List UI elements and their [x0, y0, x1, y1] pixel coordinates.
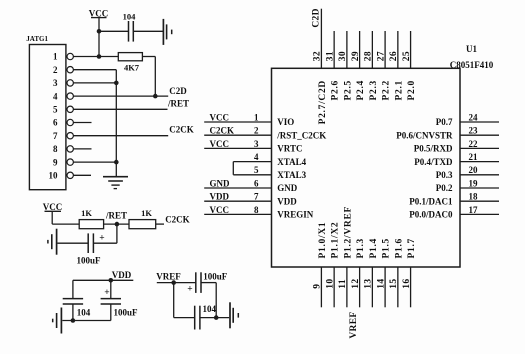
svg-text:1: 1	[53, 52, 58, 62]
svg-text:P0.2: P0.2	[436, 183, 453, 193]
svg-text:8: 8	[53, 144, 58, 154]
svg-text:6: 6	[53, 118, 58, 128]
svg-text:17: 17	[469, 205, 479, 215]
svg-text:2: 2	[53, 65, 58, 75]
svg-text:19: 19	[469, 178, 479, 188]
svg-text:P2.6: P2.6	[331, 80, 341, 100]
svg-text:104: 104	[77, 308, 91, 318]
svg-text:P2.7/C2D: P2.7/C2D	[318, 80, 328, 124]
svg-text:23: 23	[469, 126, 479, 136]
svg-text:13: 13	[364, 279, 374, 289]
svg-text:P1.7: P1.7	[407, 238, 417, 258]
svg-text:9: 9	[53, 157, 58, 167]
svg-text:C2CK: C2CK	[169, 125, 194, 135]
svg-text:P0.5/RXD: P0.5/RXD	[414, 144, 453, 154]
svg-text:VDD: VDD	[210, 192, 230, 202]
svg-text:5: 5	[53, 105, 58, 115]
svg-text:P0.4/TXD: P0.4/TXD	[414, 157, 453, 167]
svg-text:+: +	[187, 285, 192, 295]
svg-text:1K: 1K	[81, 208, 92, 218]
svg-text:VREGIN: VREGIN	[277, 210, 314, 220]
svg-text:7: 7	[53, 131, 58, 141]
svg-text:VCC: VCC	[210, 112, 230, 122]
svg-text:XTAL4: XTAL4	[277, 157, 306, 167]
svg-text:P0.0/DAC0: P0.0/DAC0	[409, 210, 453, 220]
svg-text:P0.3: P0.3	[436, 170, 453, 180]
svg-text:P1.3: P1.3	[356, 238, 366, 258]
svg-text:10: 10	[325, 279, 335, 289]
svg-text:6: 6	[254, 178, 259, 188]
svg-text:P1.1/X2: P1.1/X2	[331, 222, 341, 259]
svg-text:9: 9	[313, 284, 323, 289]
svg-text:32: 32	[313, 51, 323, 61]
svg-text:22: 22	[469, 139, 479, 149]
svg-text:20: 20	[469, 165, 479, 175]
svg-text:VCC: VCC	[89, 8, 109, 18]
svg-text:29: 29	[351, 51, 361, 61]
svg-text:8: 8	[254, 205, 259, 215]
svg-text:P1.5: P1.5	[382, 238, 392, 258]
svg-text:C2CK: C2CK	[165, 215, 190, 225]
svg-text:7: 7	[254, 192, 259, 202]
svg-text:5: 5	[254, 165, 259, 175]
svg-text:3: 3	[254, 139, 259, 149]
svg-text:VRTC: VRTC	[277, 144, 302, 154]
svg-text:28: 28	[364, 51, 374, 61]
svg-text:+: +	[99, 233, 104, 243]
svg-text:C2D: C2D	[169, 86, 187, 96]
svg-text:4: 4	[53, 91, 58, 101]
svg-text:25: 25	[402, 51, 412, 61]
svg-text:104: 104	[123, 11, 137, 21]
svg-text:1K: 1K	[141, 208, 152, 218]
svg-text:C8051F410: C8051F410	[450, 60, 494, 70]
svg-text:12: 12	[351, 279, 361, 289]
svg-text:XTAL3: XTAL3	[277, 170, 306, 180]
svg-text:VCC: VCC	[210, 139, 230, 149]
svg-text:JATG1: JATG1	[26, 35, 48, 43]
svg-text:P1.6: P1.6	[394, 238, 404, 258]
svg-text:VREF: VREF	[349, 312, 359, 339]
svg-text:+: +	[104, 288, 109, 298]
svg-text:21: 21	[469, 152, 479, 162]
svg-text:30: 30	[338, 51, 348, 61]
svg-text:P1.0/X1: P1.0/X1	[318, 222, 328, 259]
svg-text:16: 16	[402, 279, 412, 289]
svg-text:P0.1/DAC1: P0.1/DAC1	[409, 196, 453, 206]
svg-text:104: 104	[203, 304, 217, 314]
svg-text:4K7: 4K7	[124, 62, 140, 72]
svg-text:P2.5: P2.5	[343, 80, 353, 100]
svg-text:P2.1: P2.1	[394, 80, 404, 100]
svg-text:P2.0: P2.0	[407, 80, 417, 100]
svg-text:P2.2: P2.2	[382, 80, 392, 100]
svg-text:26: 26	[389, 51, 399, 61]
svg-text:VIO: VIO	[277, 117, 294, 127]
svg-text:/RET: /RET	[167, 98, 189, 108]
svg-text:VDD: VDD	[112, 270, 132, 280]
svg-text:1: 1	[254, 112, 259, 122]
svg-text:U1: U1	[466, 44, 477, 54]
svg-text:P0.7: P0.7	[436, 117, 453, 127]
svg-text:VDD: VDD	[277, 196, 297, 206]
svg-text:GND: GND	[277, 183, 298, 193]
svg-text:3: 3	[53, 78, 58, 88]
svg-text:2: 2	[254, 126, 259, 136]
svg-text:/RST_C2CK: /RST_C2CK	[276, 130, 326, 140]
svg-text:P2.3: P2.3	[369, 80, 379, 100]
svg-text:C2CK: C2CK	[210, 126, 235, 136]
svg-text:14: 14	[376, 279, 386, 289]
svg-text:/RET: /RET	[105, 211, 127, 221]
svg-text:15: 15	[389, 279, 399, 289]
svg-text:100uF: 100uF	[203, 271, 228, 281]
svg-text:31: 31	[325, 51, 335, 61]
svg-text:VCC: VCC	[210, 205, 230, 215]
svg-text:100uF: 100uF	[76, 256, 101, 266]
svg-text:11: 11	[338, 279, 348, 289]
svg-text:27: 27	[376, 51, 386, 61]
svg-text:P1.4: P1.4	[369, 238, 379, 258]
svg-text:P1.2/VREF: P1.2/VREF	[343, 206, 353, 258]
svg-text:4: 4	[254, 152, 259, 162]
svg-text:VREF: VREF	[156, 271, 181, 281]
svg-text:18: 18	[469, 192, 479, 202]
svg-text:24: 24	[469, 112, 479, 122]
svg-text:GND: GND	[210, 178, 231, 188]
svg-text:P2.4: P2.4	[356, 80, 366, 100]
svg-text:100uF: 100uF	[113, 308, 138, 318]
svg-text:VCC: VCC	[43, 202, 63, 212]
svg-text:C2D: C2D	[312, 8, 322, 27]
svg-text:10: 10	[49, 171, 59, 181]
svg-text:P0.6/CNVSTR: P0.6/CNVSTR	[396, 130, 453, 140]
